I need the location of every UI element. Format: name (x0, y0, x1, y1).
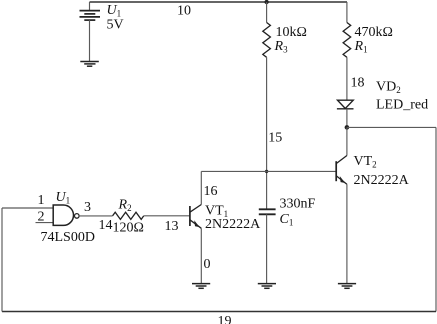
wire LED to node (346, 109, 348, 128)
svg-text:U1: U1 (107, 3, 122, 18)
svg-text:R1: R1 (354, 39, 368, 55)
nand bubble (75, 214, 80, 219)
svg-text:10: 10 (177, 3, 191, 18)
svg-text:LED_red: LED_red (376, 98, 428, 113)
transistor VT2 (336, 156, 347, 185)
svg-text:R2: R2 (118, 197, 132, 213)
ground C1 (258, 284, 276, 289)
node junction dot net15 crossing (265, 170, 268, 173)
diode VD2 LED (337, 100, 354, 109)
wire R1 top lead (346, 2, 348, 23)
svg-text:2N2222A: 2N2222A (205, 217, 261, 232)
transistor VT1 (190, 205, 201, 229)
wire NAND pin1 (2, 207, 53, 209)
wire VT2 collector (346, 127, 348, 155)
wire left edge up (1, 208, 3, 312)
svg-text:13: 13 (165, 219, 179, 234)
wire battery to ground (89, 20, 91, 61)
wire bottom rail net 19 (2, 311, 436, 313)
wire NAND pin2 stub (36, 222, 54, 224)
svg-text:14: 14 (99, 218, 113, 233)
svg-text:VT2: VT2 (354, 154, 377, 170)
wire VT2 emitter down (346, 184, 348, 283)
svg-text:R3: R3 (274, 39, 289, 55)
svg-text:C1: C1 (280, 212, 294, 228)
node junction dot LED/VT2 (345, 125, 350, 130)
svg-text:74LS00D: 74LS00D (41, 230, 95, 245)
wire VT1 collector net 16 (200, 171, 202, 204)
wire top rail net 10 (90, 1, 348, 3)
svg-text:2: 2 (38, 209, 45, 224)
ground VT2 (338, 284, 356, 289)
svg-text:19: 19 (218, 314, 232, 324)
svg-text:3: 3 (84, 200, 91, 215)
wire gate output to R2 (79, 215, 113, 217)
resistor R3 (263, 23, 271, 58)
wire VT1 emitter down (200, 228, 202, 283)
transistor VT1 emitter arrow (194, 220, 199, 227)
capacitor C1 (259, 209, 276, 214)
svg-text:2N2222A: 2N2222A (354, 173, 410, 188)
svg-text:U1: U1 (56, 190, 71, 206)
wire node to right edge (347, 126, 436, 128)
wire R2 to VT1 base (144, 215, 190, 217)
wire base net 15 horizontal (201, 170, 336, 172)
svg-text:15: 15 (268, 131, 282, 146)
svg-text:330nF: 330nF (280, 197, 316, 212)
ground battery (80, 62, 99, 67)
svg-text:16: 16 (204, 184, 218, 199)
svg-text:120Ω: 120Ω (113, 221, 144, 236)
wire battery top (89, 2, 91, 11)
svg-text:0: 0 (204, 257, 211, 272)
svg-text:470kΩ: 470kΩ (355, 25, 393, 40)
svg-text:1: 1 (38, 193, 45, 208)
svg-text:18: 18 (351, 76, 365, 91)
wire right edge down (435, 127, 437, 311)
svg-text:10kΩ: 10kΩ (276, 25, 307, 40)
svg-text:VD2: VD2 (376, 79, 401, 95)
transistor VT2 emitter arrow (340, 176, 345, 183)
wire C1 to ground (266, 214, 268, 283)
wire R3 to C1 net 15 (266, 57, 268, 209)
resistor R2 (113, 212, 144, 219)
ground VT1 (192, 284, 210, 289)
nand gate U1 74LS00D (53, 205, 73, 225)
resistor R1 (343, 23, 351, 58)
svg-text:5V: 5V (107, 18, 124, 33)
wire R1 to LED (346, 57, 348, 100)
node junction dot top (264, 0, 268, 4)
wire R3 top lead (266, 2, 268, 23)
battery U1 (80, 11, 101, 21)
